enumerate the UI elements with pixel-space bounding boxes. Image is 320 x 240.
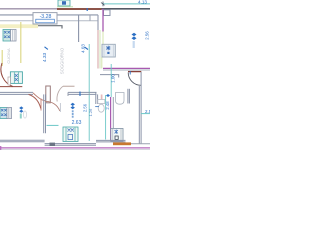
column notch — [104, 10, 111, 16]
jamb tick — [67, 92, 69, 96]
wall magenta mid horizontal — [103, 67, 150, 69]
wall jamb vertical — [128, 89, 129, 104]
door leaf pale — [59, 103, 61, 112]
orange bar — [113, 142, 131, 145]
svg-text:1.26: 1.26 — [88, 108, 93, 117]
wall top-left purple — [0, 8, 57, 10]
dim arrow mid — [85, 47, 89, 50]
wall corner blob — [50, 143, 56, 146]
bidet T2 — [116, 93, 125, 105]
dim arrow — [45, 47, 48, 50]
window W1 left — [3, 30, 16, 42]
cabinet F2 — [8, 72, 22, 85]
boundary purple bottom — [0, 147, 150, 149]
stair edge — [38, 26, 62, 29]
wall gray under — [103, 69, 150, 71]
door D1 arc — [1, 63, 13, 87]
dimension line vertical mid — [88, 44, 90, 141]
icon outlet mid-bottom — [71, 103, 75, 109]
wall bottom segment 4 — [126, 143, 151, 145]
door leaf open — [63, 85, 75, 87]
stair landing box — [33, 13, 57, 24]
window W2 top — [58, 0, 70, 6]
stair line C — [0, 20, 33, 22]
window W7 bath sink — [111, 129, 123, 142]
door scallop arc1 — [33, 93, 46, 101]
wall lime vertical upper — [102, 32, 104, 45]
svg-text:2.56: 2.56 — [145, 31, 150, 40]
dim dash teal — [47, 124, 59, 126]
corridor wall left — [0, 92, 33, 94]
wall yellow vertical — [20, 22, 22, 63]
wall WC left — [96, 92, 98, 104]
window W4 right-top — [102, 44, 115, 57]
wall yellow vertical 2 — [1, 50, 3, 66]
wall pale green vertical — [99, 30, 101, 69]
wall gray-blue vertical — [97, 15, 99, 30]
door D3 leaf — [128, 71, 141, 73]
svg-text:4.03: 4.03 — [81, 44, 86, 53]
toilet T1 — [95, 100, 105, 113]
door jamb pale red — [40, 99, 42, 111]
yellow band demolition — [0, 24, 38, 28]
dimension line right edge — [141, 113, 150, 115]
svg-text:2.56: 2.56 — [83, 103, 88, 112]
stair inner rect — [36, 19, 55, 23]
svg-text:2.63: 2.63 — [72, 120, 82, 126]
door jamb pillar1 — [46, 86, 51, 103]
wall bottom segment 2 — [45, 144, 96, 146]
dimension line top-right — [103, 3, 150, 5]
stair step — [89, 15, 91, 21]
svg-text:4.33: 4.33 — [42, 53, 48, 63]
dimension line 1.00 — [110, 64, 112, 97]
icon label dashes — [133, 41, 135, 48]
icon outlet right — [132, 33, 137, 40]
window W6 kitchen — [63, 127, 78, 142]
wall top-right dark — [102, 8, 151, 10]
icon outlet bottom-left — [19, 106, 23, 112]
svg-text:SOGGIORNO: SOGGIORNO — [60, 47, 65, 74]
door arc bottom-mid — [45, 101, 60, 111]
door arc bottom-left — [29, 94, 41, 108]
boundary gray bottom — [0, 148, 150, 150]
wall stub — [100, 75, 119, 78]
window W5 bottom-left — [0, 108, 12, 119]
icon label teal — [20, 114, 22, 119]
svg-text:2.48: 2.48 — [105, 101, 110, 110]
green sill line — [57, 6, 73, 8]
wall bottom segment 3 — [96, 140, 126, 142]
wall lime vertical lower — [101, 57, 103, 69]
svg-text:CUCINA: CUCINA — [6, 48, 11, 64]
icon label vertical — [72, 110, 74, 117]
wall right vertical — [139, 72, 141, 144]
door D3 arc — [128, 73, 141, 86]
svg-text:2.56: 2.56 — [145, 109, 150, 114]
dimension line bath — [105, 95, 107, 140]
blue tick on top wall — [86, 8, 88, 11]
wall marker blue — [79, 92, 81, 97]
door D1 sill — [0, 86, 22, 88]
wall top-mid dark red — [57, 8, 102, 10]
blue tick right — [129, 71, 131, 75]
corridor wall right — [68, 92, 97, 94]
wall magenta vertical — [102, 9, 104, 32]
figure faint — [23, 111, 26, 118]
svg-text:1.00: 1.00 — [111, 74, 116, 83]
icon marker bath — [106, 94, 110, 97]
wall partition magenta — [110, 97, 112, 141]
wall bottom-left room vertical — [44, 94, 46, 133]
stair line B — [0, 14, 33, 16]
door arc2 — [57, 86, 63, 101]
stair side line — [78, 15, 80, 42]
svg-text:4.13: 4.13 — [138, 0, 147, 4]
wall pale red vertical — [97, 30, 99, 69]
door jamb pale pink WC — [101, 95, 103, 113]
wall bottom segment 1 — [0, 140, 45, 142]
wall partition gray — [112, 97, 114, 141]
boundary purple left — [0, 146, 2, 150]
dim tick — [101, 2, 105, 7]
